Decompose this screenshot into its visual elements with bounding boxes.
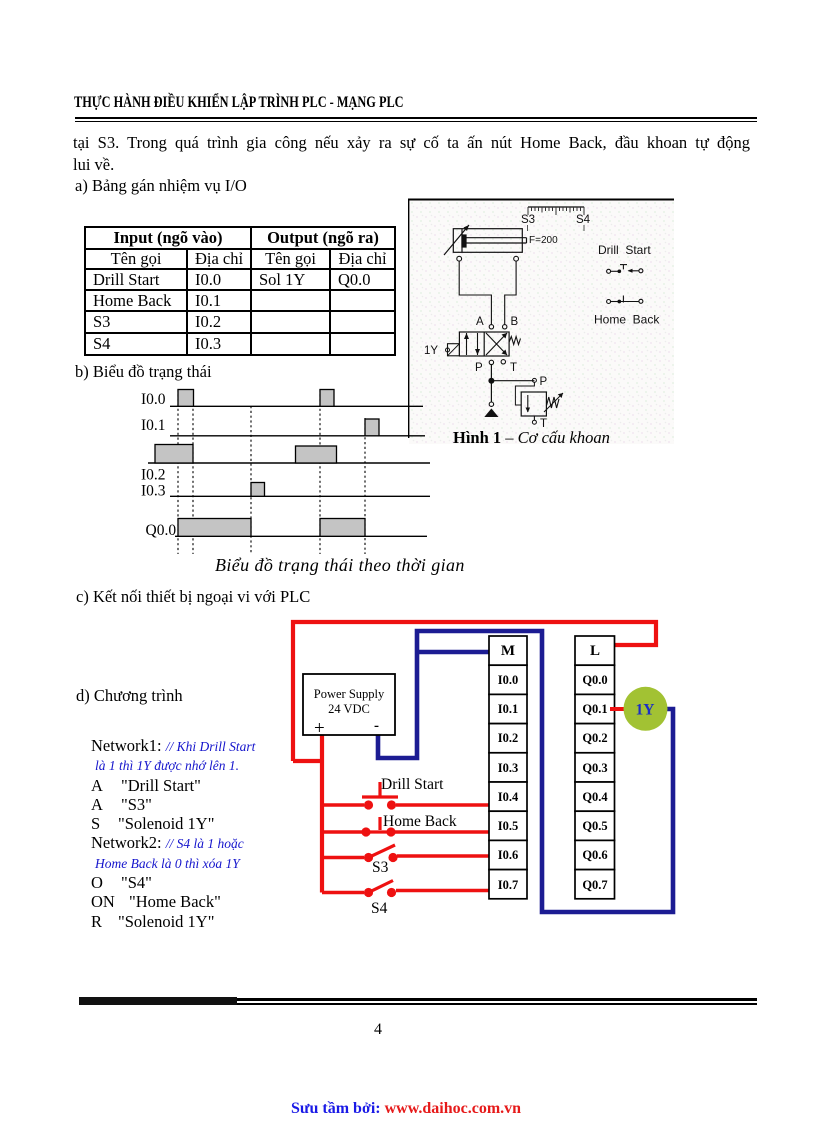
- svg-text:I0.4: I0.4: [498, 790, 519, 804]
- 1Y lamp circle: [624, 687, 668, 731]
- svg-text:Q0.3: Q0.3: [582, 761, 607, 775]
- S3 S4 dash marks: [527, 225, 529, 231]
- svg-text:I0.0: I0.0: [498, 673, 519, 687]
- port circles under cylinder: [457, 256, 462, 261]
- svg-text:I0.2: I0.2: [141, 467, 166, 484]
- svg-text:Q0.0: Q0.0: [582, 673, 607, 687]
- footer bar: [79, 998, 757, 1001]
- svg-text:P: P: [540, 376, 548, 388]
- svg-text:Q0.0: Q0.0: [146, 522, 177, 539]
- NC contact symbol: [607, 296, 643, 304]
- svg-text:S4: S4: [576, 214, 591, 226]
- piston plate: [462, 235, 466, 247]
- svg-text:I0.1: I0.1: [498, 702, 519, 716]
- svg-text:Home Back: Home Back: [383, 813, 457, 830]
- home back pushbutton: [361, 827, 370, 836]
- svg-text:I0.3: I0.3: [498, 761, 519, 775]
- baseline I0.1: [170, 435, 425, 437]
- source triangle: [484, 409, 498, 418]
- cylinder left cap: [461, 229, 463, 253]
- WIRING diagram: [285, 615, 690, 925]
- svg-text:F=200: F=200: [529, 235, 558, 246]
- pulse I0.3: [251, 483, 265, 497]
- FIGURE Hinh 1: [406, 196, 676, 448]
- red row drill start: [322, 803, 364, 807]
- valve port P: [489, 360, 493, 364]
- valve body: [459, 332, 509, 356]
- svg-text:Drill Start: Drill Start: [598, 243, 651, 257]
- dashed t3: [250, 406, 252, 554]
- heading a): [75, 176, 247, 196]
- svg-text:I0.5: I0.5: [498, 819, 519, 833]
- figure top border: [408, 199, 674, 201]
- svg-text:Biểu đồ trạng thái theo thời g: Biểu đồ trạng thái theo thời gian: [215, 555, 465, 575]
- ruler: [528, 206, 584, 208]
- svg-text:A: A: [476, 316, 484, 328]
- pulse I0.0 b: [320, 390, 334, 407]
- S3 switch: [364, 853, 373, 862]
- heading d): [76, 686, 183, 706]
- figure background: [409, 199, 674, 444]
- pulse I0.2 b: [296, 446, 337, 463]
- header double rule: [75, 117, 757, 119]
- baseline I0.2: [148, 462, 430, 464]
- svg-text:Power Supply: Power Supply: [314, 687, 385, 701]
- relief P circle: [532, 378, 536, 382]
- svg-text:M: M: [501, 643, 515, 659]
- svg-text:I0.2: I0.2: [498, 731, 519, 745]
- solenoid 1Y box: [448, 344, 460, 356]
- svg-text:S3: S3: [521, 214, 535, 226]
- svg-text:Q0.5: Q0.5: [582, 819, 607, 833]
- pulse I0.0 a: [178, 390, 194, 407]
- junction dot: [488, 378, 494, 384]
- branch to relief valve: [491, 380, 534, 382]
- heading b): [75, 362, 212, 382]
- S4 switch: [364, 888, 373, 897]
- red plus feed: [293, 728, 322, 893]
- valve port B: [503, 325, 507, 329]
- wire cylinder B: [505, 261, 516, 324]
- relief spring: [546, 397, 559, 408]
- cushion arrowhead: [464, 225, 470, 231]
- svg-text:Q0.6: Q0.6: [582, 848, 607, 862]
- M column: [489, 636, 527, 899]
- svg-text:Q0.1: Q0.1: [582, 702, 607, 716]
- svg-text:Q0.7: Q0.7: [582, 878, 607, 892]
- red row home back: [322, 830, 362, 834]
- svg-text:Home Back: Home Back: [594, 313, 660, 327]
- red wire Q0.1 to 1Y: [610, 707, 629, 711]
- valve spring: [509, 337, 520, 345]
- dashed t4: [319, 390, 321, 555]
- relief valve body: [521, 392, 546, 416]
- pulse Q0.0 a: [178, 519, 251, 537]
- power supply box: [303, 674, 395, 735]
- svg-text:P: P: [475, 362, 483, 374]
- red row S4: [322, 891, 364, 895]
- dashed t1: [177, 390, 179, 555]
- svg-text:B: B: [511, 316, 519, 328]
- figure left border: [408, 199, 410, 438]
- baseline Q0.0: [175, 535, 427, 537]
- I/O table: [84, 226, 396, 356]
- pulse Q0.0 b: [320, 519, 365, 537]
- baseline I0.0: [170, 405, 423, 407]
- program listing: [91, 736, 361, 931]
- svg-text:1Y: 1Y: [636, 702, 655, 719]
- dashed t5: [364, 418, 366, 554]
- line P down: [490, 365, 492, 402]
- svg-text:I0.1: I0.1: [141, 417, 166, 434]
- svg-text:I0.6: I0.6: [498, 848, 519, 862]
- cushion arrow: [444, 225, 469, 255]
- svg-text:I0.7: I0.7: [498, 878, 519, 892]
- svg-text:L: L: [590, 643, 600, 659]
- svg-text:1Y: 1Y: [424, 345, 438, 357]
- paragraph: [73, 133, 750, 153]
- valve port T: [501, 360, 505, 364]
- dashed t2: [192, 390, 194, 555]
- footer credit: [291, 1100, 521, 1118]
- pulse I0.1: [365, 419, 379, 436]
- wire cylinder A: [459, 261, 491, 324]
- svg-text:Q0.2: Q0.2: [582, 731, 607, 745]
- valve left cell arrows: [467, 333, 478, 355]
- relief pilot line: [515, 382, 534, 405]
- svg-text:24 VDC: 24 VDC: [328, 702, 370, 716]
- source circle: [489, 402, 493, 406]
- red top wire: [293, 622, 656, 761]
- drill start pushbutton: [364, 800, 373, 809]
- pulse I0.2 a: [155, 445, 193, 464]
- piston rod: [466, 237, 527, 239]
- heading c): [76, 587, 310, 607]
- svg-text:I0.3: I0.3: [141, 483, 166, 500]
- blue wire main loop: [378, 631, 673, 912]
- relief adjust arrow: [544, 393, 563, 412]
- svg-text:Drill Start: Drill Start: [381, 776, 444, 793]
- red row S3: [322, 856, 364, 860]
- blue branch to M: [417, 650, 490, 655]
- svg-text:I0.0: I0.0: [141, 391, 166, 408]
- header title: [74, 94, 404, 112]
- svg-text:-: -: [374, 718, 379, 734]
- baseline I0.3: [170, 495, 430, 497]
- valve right cell cross: [486, 333, 507, 355]
- relief internal arrow: [527, 395, 529, 412]
- page number: [374, 1021, 382, 1039]
- NO contact symbol: [607, 265, 643, 274]
- svg-text:S3: S3: [372, 859, 389, 876]
- svg-text:S4: S4: [371, 900, 388, 917]
- svg-text:Q0.4: Q0.4: [582, 790, 608, 804]
- cylinder body: [453, 229, 522, 253]
- relief T line: [533, 416, 535, 420]
- valve port A: [489, 325, 493, 329]
- svg-text:T: T: [510, 362, 517, 374]
- L column: [575, 636, 615, 899]
- TIMING diagram: [130, 385, 480, 580]
